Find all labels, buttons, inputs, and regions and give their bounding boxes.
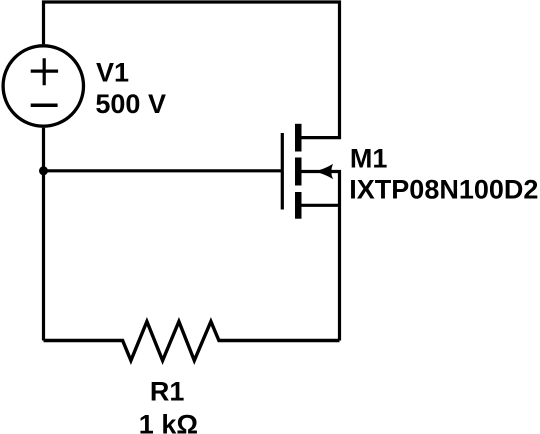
svg-text:V1: V1 — [96, 58, 129, 88]
svg-text:IXTP08N100D2: IXTP08N100D2 — [349, 175, 538, 205]
svg-text:500 V: 500 V — [95, 89, 166, 119]
svg-text:M1: M1 — [350, 143, 388, 173]
svg-text:1 kΩ: 1 kΩ — [139, 410, 198, 434]
svg-text:R1: R1 — [150, 376, 185, 406]
